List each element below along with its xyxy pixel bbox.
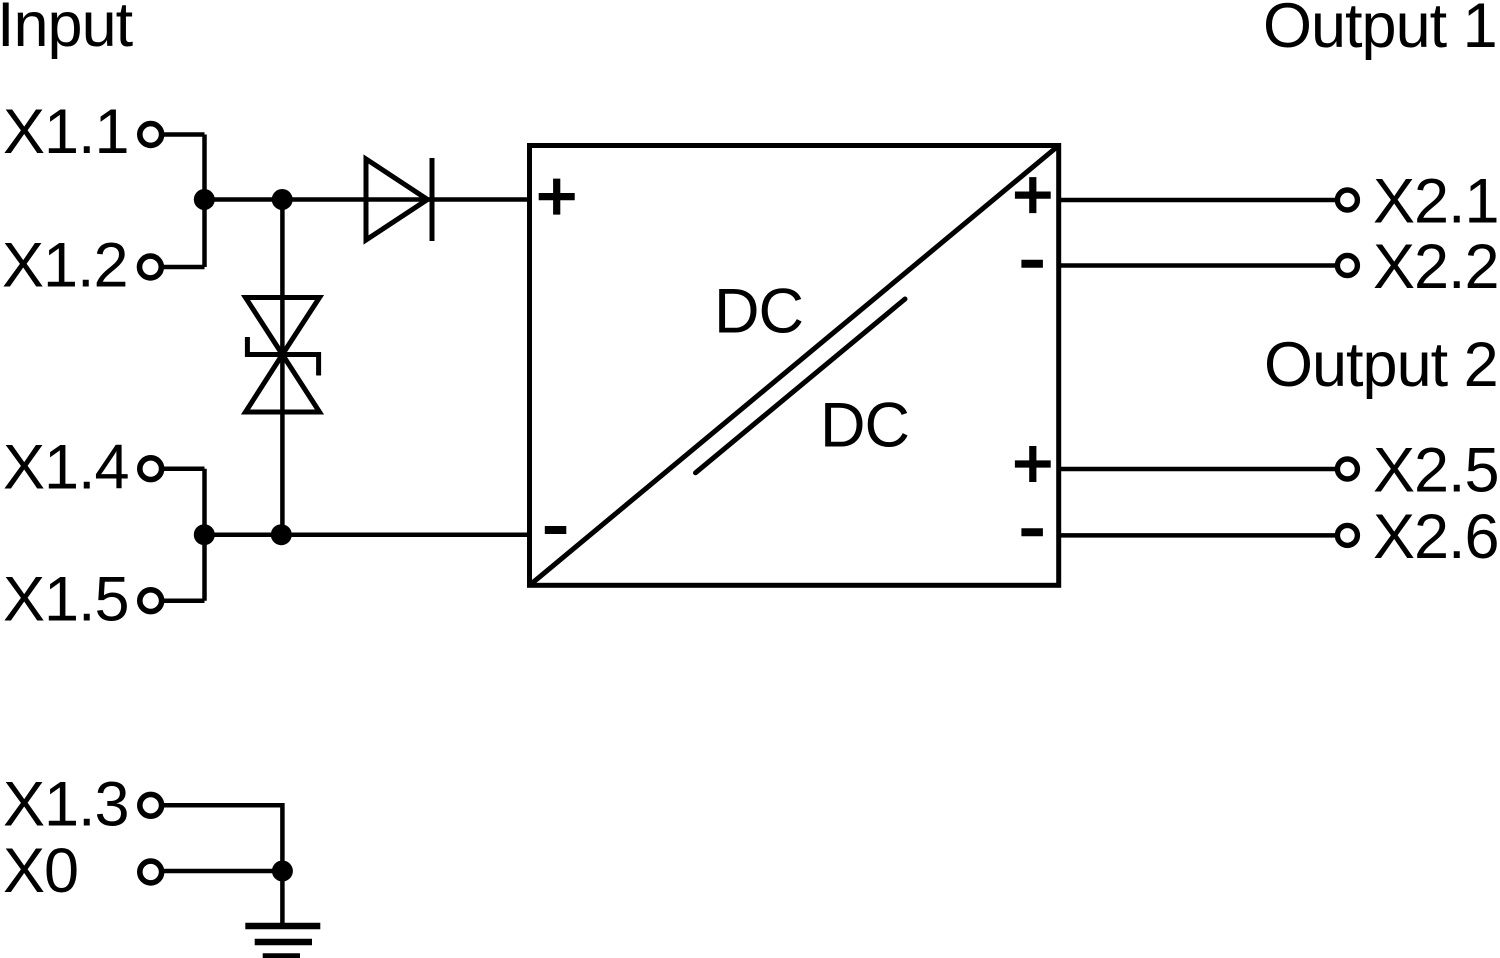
wire output X2.6	[1059, 533, 1335, 538]
terminal circle X1.1	[140, 124, 162, 146]
ground symbol	[245, 926, 320, 957]
svg-text:X1.1: X1.1	[3, 97, 129, 167]
terminal circle X1.4	[140, 458, 162, 480]
minus marker output1	[1021, 260, 1043, 268]
svg-text:Input: Input	[0, 0, 134, 60]
svg-text:DC: DC	[820, 391, 909, 461]
terminal circle X2.2	[1337, 256, 1357, 276]
wire TVS vertical	[280, 200, 285, 535]
DC/DC converter diagonal	[530, 146, 1059, 586]
wire output X2.2	[1059, 263, 1335, 268]
terminal circle X1.5	[140, 590, 162, 612]
plus marker output1	[1015, 177, 1051, 213]
DC/DC converter second diagonal	[696, 299, 906, 473]
svg-text:X2.1: X2.1	[1373, 167, 1499, 237]
TVS suppressor top triangle	[246, 298, 320, 355]
terminal circle X1.2	[140, 256, 162, 278]
TVS suppressor Z-bar	[247, 337, 318, 376]
wire X1.2 lead	[162, 265, 205, 270]
wire ground stem	[280, 871, 285, 926]
junction dot top rail TVS	[272, 189, 293, 210]
wire X1.4-X1.5 vertical jog	[202, 469, 207, 601]
wire X1.4 lead	[162, 466, 205, 471]
svg-text:X0: X0	[3, 836, 78, 906]
junction dot top rail left	[194, 189, 215, 210]
terminal circle X2.5	[1337, 459, 1357, 479]
diode D1 triangle	[366, 159, 428, 240]
wire X1.5 lead	[162, 598, 205, 603]
svg-text:X1.5: X1.5	[3, 565, 129, 635]
wire X0 lead	[164, 869, 282, 874]
junction dot bottom rail left	[194, 524, 215, 545]
junction dot bottom rail TVS	[271, 524, 292, 545]
terminal circle X1.3	[140, 794, 162, 816]
plus marker output2	[1015, 446, 1051, 482]
wire bottom rail	[205, 532, 530, 537]
svg-text:X2.5: X2.5	[1373, 435, 1499, 505]
terminal circle X0	[140, 861, 162, 883]
svg-text:X2.2: X2.2	[1373, 232, 1499, 302]
svg-text:X1.4: X1.4	[3, 433, 129, 503]
wire X1.1 lead	[162, 132, 205, 137]
svg-text:X2.6: X2.6	[1373, 502, 1499, 572]
svg-text:X1.3: X1.3	[3, 769, 129, 839]
svg-text:DC: DC	[714, 277, 803, 347]
wire X1.3 lead	[164, 805, 282, 871]
diode D1 cathode bar	[430, 158, 435, 241]
terminal circle X2.6	[1337, 525, 1357, 545]
junction dot ground	[272, 861, 293, 882]
wire output X2.5	[1059, 467, 1335, 472]
minus marker input	[545, 526, 567, 534]
plus marker input	[539, 179, 575, 215]
wire output X2.1	[1059, 198, 1335, 203]
svg-text:Output 1: Output 1	[1263, 0, 1497, 61]
minus marker output2	[1021, 528, 1043, 536]
DC/DC converter U1 box	[530, 146, 1059, 586]
wire X1.1-X1.2 vertical jog	[202, 135, 207, 268]
svg-text:Output 2: Output 2	[1264, 330, 1498, 400]
terminal circle X2.1	[1337, 190, 1357, 210]
wire top rail	[205, 197, 530, 202]
TVS suppressor bottom triangle	[246, 355, 320, 413]
svg-text:X1.2: X1.2	[2, 231, 128, 301]
